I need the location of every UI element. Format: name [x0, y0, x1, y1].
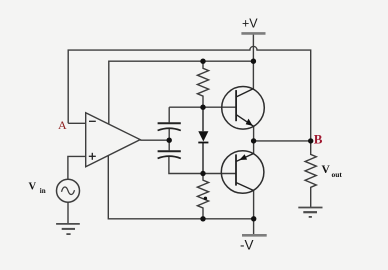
svg-text:A: A	[58, 118, 67, 132]
svg-text:in: in	[40, 187, 46, 195]
svg-text:out: out	[332, 170, 343, 179]
svg-text:V: V	[322, 164, 331, 176]
svg-text:+V: +V	[242, 17, 258, 31]
svg-text:-V: -V	[240, 238, 254, 253]
svg-text:V: V	[29, 182, 37, 193]
svg-text:B: B	[314, 131, 323, 146]
